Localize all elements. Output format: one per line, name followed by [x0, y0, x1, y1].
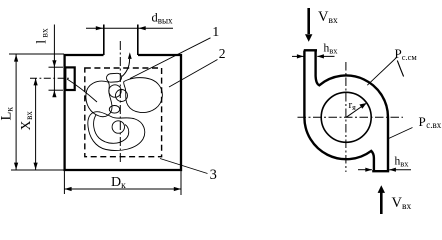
svg-text:Dк: Dк — [111, 175, 126, 191]
svg-text:1: 1 — [212, 25, 219, 40]
svg-text:Рс.вх: Рс.вх — [419, 114, 442, 130]
svg-text:3: 3 — [210, 167, 217, 183]
svg-text:Рс.см: Рс.см — [395, 46, 418, 62]
svg-text:rя: rя — [349, 99, 357, 112]
svg-text:Vвх: Vвх — [392, 195, 412, 212]
svg-text:hвх: hвх — [324, 43, 339, 56]
svg-text:Vвх: Vвх — [318, 9, 338, 26]
svg-text:dвых: dвых — [152, 11, 174, 26]
svg-text:2: 2 — [219, 46, 226, 61]
svg-text:Lк: Lк — [0, 107, 16, 121]
svg-text:hвх: hвх — [395, 156, 410, 169]
svg-text:Xвх: Xвх — [18, 111, 34, 131]
svg-text:lвх: lвх — [35, 28, 51, 44]
